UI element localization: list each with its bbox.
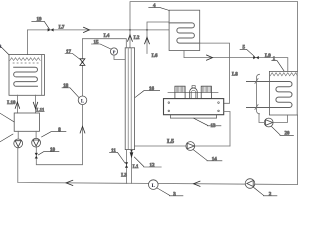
pump 20 bbox=[264, 118, 273, 127]
bolt bbox=[218, 102, 220, 104]
tank 9 bbox=[14, 113, 39, 131]
wire coil exit L8 down into machine 13 bbox=[200, 43, 230, 103]
valve 10 bbox=[35, 153, 38, 159]
hatch strip of evaporator bbox=[10, 58, 40, 61]
pump 14 bbox=[186, 142, 195, 151]
svg-text:L: L bbox=[151, 183, 155, 189]
svg-text:L9: L9 bbox=[265, 54, 271, 59]
svg-text:16: 16 bbox=[149, 87, 155, 92]
label 12 bbox=[134, 157, 161, 167]
label 19 bbox=[32, 21, 50, 29]
svg-text:L1: L1 bbox=[133, 165, 139, 170]
valve 17 (hourglass) bbox=[80, 59, 85, 66]
wire L1 from column bottom bbox=[131, 150, 133, 184]
arrow L6 bbox=[145, 37, 150, 44]
svg-text:13: 13 bbox=[211, 124, 217, 129]
coil of condenser 1 with left stubs bbox=[247, 82, 293, 108]
coil of evaporator bbox=[14, 67, 38, 86]
hatch strip of condenser 1 bbox=[270, 73, 297, 76]
label 20 bbox=[272, 127, 294, 136]
bolt bbox=[168, 102, 170, 104]
base plate 13 bbox=[170, 115, 216, 118]
wire L5 line from column bottom through pump 14 bbox=[135, 145, 230, 147]
arrow left on bottom line bbox=[66, 180, 73, 185]
arrow down on L1 bbox=[130, 152, 134, 158]
heat exchanger 1 (right condenser box) bbox=[269, 71, 297, 115]
label 3 bbox=[157, 188, 183, 196]
crossing tick lower bbox=[255, 105, 258, 110]
dotted row under hatch bbox=[13, 62, 38, 64]
svg-text:L6: L6 bbox=[152, 54, 158, 59]
label 8 bbox=[42, 132, 67, 137]
pressure gauge 15 bbox=[110, 48, 117, 55]
wire main line L7/L4 from evaporator top to condenser 4 bbox=[27, 30, 169, 55]
device 18 (circle L) bbox=[78, 96, 87, 105]
label 18 bbox=[62, 88, 79, 98]
flow arrow on L4 bbox=[84, 27, 90, 32]
arrow L11 down bbox=[33, 102, 37, 108]
column heat exchanger 16 bbox=[125, 48, 134, 150]
wire machine 13 outlet down to valve line bbox=[224, 112, 230, 147]
coil of condenser 4 bbox=[169, 23, 200, 43]
arrow L10 up bbox=[15, 102, 19, 108]
svg-text:14: 14 bbox=[212, 158, 218, 163]
pump 8 bbox=[32, 138, 41, 147]
wire pump 20 inlet bbox=[259, 114, 264, 123]
bolt bbox=[168, 110, 170, 112]
label 17 bbox=[65, 54, 80, 60]
label 11 bbox=[110, 152, 126, 163]
wire riser with valve 17 into column top bbox=[82, 39, 126, 96]
brace left of condenser 1 bbox=[257, 74, 260, 114]
svg-text:L8: L8 bbox=[232, 72, 238, 77]
svg-text:L10: L10 bbox=[7, 101, 16, 106]
wire pump 20 outlet bbox=[273, 115, 287, 123]
node junction at L6 bbox=[146, 29, 148, 31]
arrow up on riser bbox=[80, 126, 85, 133]
svg-text:P: P bbox=[113, 49, 116, 54]
svg-text:L7: L7 bbox=[59, 25, 65, 30]
device 3 (circle L) bbox=[149, 180, 159, 190]
svg-text:L3: L3 bbox=[121, 173, 127, 178]
svg-text:L5: L5 bbox=[167, 139, 174, 145]
label 2 bbox=[253, 187, 277, 196]
crossing tick upper bbox=[255, 79, 258, 84]
bolt bbox=[218, 110, 220, 112]
heat exchanger 2 (evaporator box) bbox=[9, 55, 45, 96]
wire L3 from column bottom bbox=[126, 150, 128, 184]
leader left to pump 6 bbox=[0, 134, 13, 142]
svg-text:L2: L2 bbox=[134, 36, 140, 41]
machine 13 (compressor unit box) bbox=[164, 99, 224, 115]
svg-text:L4: L4 bbox=[104, 34, 110, 39]
node junction at L2 bbox=[129, 29, 131, 31]
wire bottom return loop bbox=[18, 115, 298, 185]
label 5 bbox=[240, 49, 255, 56]
label 14 bbox=[194, 150, 223, 161]
svg-text:10: 10 bbox=[50, 148, 56, 153]
support line through cylinders bbox=[168, 92, 218, 94]
wire top loop to condenser 1 bbox=[130, 2, 298, 72]
svg-text:15: 15 bbox=[94, 40, 100, 45]
svg-text:11: 11 bbox=[111, 149, 116, 154]
svg-text:17: 17 bbox=[66, 50, 72, 55]
svg-text:20: 20 bbox=[285, 132, 291, 137]
svg-text:19: 19 bbox=[37, 18, 43, 23]
label 13 bbox=[194, 118, 222, 126]
label 1 bbox=[272, 61, 284, 71]
leader left to tank bbox=[0, 113, 14, 122]
valve 19 bbox=[48, 28, 54, 31]
arrow left on bottom line 2 bbox=[194, 181, 201, 186]
valve 5 bbox=[253, 56, 259, 59]
arrow L2 bbox=[128, 35, 133, 42]
wire condenser drain to condenser 1 top bbox=[184, 51, 288, 72]
label 2 leader at edge bbox=[0, 46, 9, 55]
wire from pump 8 up to device 18 bbox=[36, 105, 82, 165]
cylinder middle (dome) bbox=[190, 88, 198, 99]
pump 2 bbox=[245, 179, 255, 189]
valve 11 bbox=[125, 162, 128, 167]
wire L6 stub bbox=[146, 30, 148, 54]
wire L10 evaporator to tank bbox=[16, 95, 18, 113]
wire L2 stub into column bbox=[129, 30, 131, 48]
svg-text:18: 18 bbox=[63, 84, 69, 89]
label 15 bbox=[91, 44, 110, 49]
heat exchanger 4 (condenser box) bbox=[169, 10, 200, 50]
flow arrow on drain bbox=[207, 55, 213, 60]
svg-text:12: 12 bbox=[150, 163, 156, 168]
wire L11 evaporator to tank bbox=[35, 95, 37, 113]
label 16 bbox=[135, 91, 160, 98]
wire gauge to column bbox=[114, 55, 125, 59]
cylinder left bbox=[175, 86, 185, 98]
label 10 bbox=[38, 152, 59, 155]
wire elbow into condenser coil row1 bbox=[147, 22, 169, 30]
cylinder right bbox=[201, 86, 211, 98]
pump 6 bbox=[14, 139, 23, 148]
label 4 bbox=[149, 8, 169, 11]
